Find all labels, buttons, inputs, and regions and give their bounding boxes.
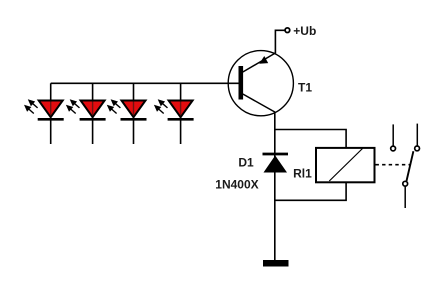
relay Rl1 coil (316, 148, 375, 182)
terminal +Ub (285, 28, 290, 33)
T1 upper (emitter) lead with arrow (243, 53, 276, 72)
switch common contact (bottom) (403, 181, 408, 208)
dashed actuation link (376, 164, 410, 166)
ground (263, 260, 289, 267)
T1 lower (collector) lead (243, 94, 275, 112)
wire: branch bottom to relay (275, 183, 346, 201)
wire: branch top to relay (275, 130, 346, 148)
LED 2 (66, 83, 106, 144)
svg-text:Rl1: Rl1 (293, 167, 312, 181)
LED 4 (154, 83, 194, 144)
diode D1 (263, 154, 289, 173)
switch lever (407, 151, 414, 181)
svg-text:+Ub: +Ub (293, 24, 316, 38)
T1 base bar (239, 66, 244, 100)
wire: LED anode rail to transistor base (51, 82, 239, 84)
svg-text:D1: D1 (238, 155, 254, 169)
LED 3 (107, 83, 147, 144)
wire: collector to +Ub terminal (275, 30, 284, 53)
switch fixed contact B (right) (415, 124, 420, 151)
svg-text:T1: T1 (298, 81, 312, 95)
transistor T1 (228, 51, 293, 116)
svg-text:1N400X: 1N400X (215, 177, 258, 191)
T1 body circle (228, 51, 293, 116)
LED 1 (24, 83, 64, 144)
wire: emitter down to ground (274, 112, 276, 261)
switch fixed contact A (left) (391, 124, 396, 151)
